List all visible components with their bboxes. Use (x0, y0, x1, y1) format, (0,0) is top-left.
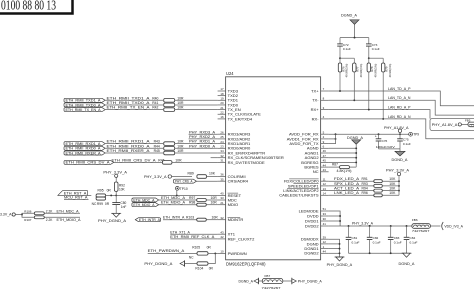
svg-text:ETH_RMII_TXD0_A: ETH_RMII_TXD0_A (66, 103, 102, 107)
svg-text:25: 25 (220, 135, 224, 139)
wire ETH_RMII_TX_EN_A (105, 105, 163, 110)
svg-text:ETH_MDC_A: ETH_MDC_A (133, 198, 155, 202)
svg-text:C81: C81 (352, 236, 358, 240)
svg-text:21: 21 (220, 106, 224, 110)
wire cap ground rail (C81-C84) (349, 252, 407, 254)
svg-text:R44: R44 (154, 144, 160, 148)
wire ETH_INTR_A (163, 216, 197, 220)
net flag ETH_RMII_RXD0_A (64, 146, 105, 150)
resistor R46 10R (162, 159, 182, 165)
resistor R79 49.9R(1%) (369, 58, 392, 119)
svg-text:ETH_RMII_TX_EN_A: ETH_RMII_TX_EN_A (107, 105, 150, 110)
svg-text:0R: 0R (105, 202, 110, 206)
wire R105 to U24 PWRDWN (208, 252, 218, 254)
pin 25 RXD2/ADR2 (U24 left) (218, 135, 251, 141)
resistor R45 10R (154, 149, 184, 155)
svg-text:ETH_RMII_TX_EN_A: ETH_RMII_TX_EN_A (66, 108, 102, 112)
svg-text:10K: 10K (119, 188, 126, 192)
svg-text:16: 16 (220, 115, 224, 119)
net flag ETH_MDIO_A (132, 203, 159, 207)
power port 3.3V_A (0, 213, 15, 217)
svg-text:R104: R104 (195, 267, 203, 271)
pin 3 RX+ (U24 right) (311, 106, 329, 112)
svg-text:LNK_LED_A: LNK_LED_A (334, 191, 360, 195)
svg-text:+: + (375, 135, 377, 139)
svg-text:19: 19 (220, 97, 224, 101)
svg-text:LAN_TD_A_N: LAN_TD_A_N (388, 96, 411, 100)
svg-text:35: 35 (220, 177, 224, 181)
node C72/R76/R77 (339, 57, 341, 59)
wire LAN_RD_A_N (329, 115, 474, 139)
wire R104 to PWRDWN node (208, 253, 215, 263)
svg-text:ETH_RMII_RXD1_A: ETH_RMII_RXD1_A (66, 142, 102, 146)
wire FDX_LED_A (329, 177, 374, 181)
svg-text:45: 45 (323, 159, 327, 163)
svg-text:10K: 10K (389, 191, 396, 195)
pin 44 DGND2 (U24 right) (304, 250, 328, 256)
svg-text:49.9R(1%): 49.9R(1%) (388, 64, 392, 78)
wire FB6 to VDD_IV3_A (430, 225, 440, 227)
svg-text:ETH_MDIO_A: ETH_MDIO_A (133, 203, 155, 207)
svg-text:10R: 10R (177, 140, 184, 144)
svg-text:RX_DV/TESTMODE: RX_DV/TESTMODE (228, 160, 265, 165)
svg-text:NC: NC (189, 255, 194, 259)
svg-text:31: 31 (220, 159, 224, 163)
capacitor C73 0.1uF (366, 38, 380, 59)
power port PHY_A1.8V_A (FB5) (432, 123, 462, 127)
svg-text:FB6: FB6 (412, 218, 418, 222)
wire R103 to U24 (206, 219, 217, 221)
capacitor C81 0.1uF (346, 226, 360, 253)
wire PHY_RXD2_A (189, 134, 218, 139)
power port PHY_3.3V_A (R92) (103, 171, 127, 178)
wire LED pullup vertical (398, 176, 400, 196)
svg-text:MDINTR: MDINTR (228, 217, 244, 222)
svg-text:0.1uF: 0.1uF (352, 241, 360, 245)
pin 30 DVDD1 (U24 right) (305, 217, 329, 223)
wire ACT_LED_A (329, 187, 374, 191)
svg-text:ETH_INTR_A: ETH_INTR_A (139, 218, 161, 222)
pin 26 RXD3/ADR3 (U24 left) (218, 130, 251, 136)
svg-text:0.1uF: 0.1uF (403, 142, 411, 146)
wire R91 to pullup rail (382, 180, 400, 182)
resistor R99 0R (NC) (92, 195, 110, 206)
resistor R43 10R (154, 140, 184, 146)
svg-text:FB7: FB7 (265, 274, 271, 278)
svg-text:CABLEDET/LINKSTS: CABLEDET/LINKSTS (279, 193, 319, 198)
pin 12 SPEEDLED/OP1 (U24 right) (288, 182, 329, 188)
svg-text:33: 33 (323, 212, 327, 216)
svg-text:ETH_RMII_REF_CLK_A: ETH_RMII_REF_CLK_A (170, 235, 214, 239)
svg-text:ETH_RMII_RXD0_A: ETH_RMII_RXD0_A (66, 147, 102, 151)
svg-text:R45: R45 (154, 149, 160, 153)
svg-text:43: 43 (323, 168, 327, 172)
resistor R93 10K (374, 182, 396, 188)
pin 42 REF_CLK/XT2 (U24 left) (218, 235, 256, 241)
svg-text:33: 33 (220, 196, 224, 200)
svg-text:LAN_RD_A_P: LAN_RD_A_P (388, 106, 411, 110)
svg-text:49.9R(1%): 49.9R(1%) (345, 64, 349, 78)
svg-text:R106: R106 (24, 209, 32, 213)
svg-text:51: 51 (323, 207, 327, 211)
svg-text:20: 20 (220, 101, 224, 105)
ground PHY_DGND_A (R104) (144, 260, 184, 267)
wire AGND vertical (329, 144, 358, 167)
wire ETH_RMII_TXD0_A (105, 100, 163, 105)
ferrite bead FB6 (412, 218, 431, 233)
ground PHY_DGND_A (C80) (98, 213, 127, 223)
svg-text:0.1uF: 0.1uF (343, 47, 351, 51)
svg-text:R98: R98 (189, 201, 195, 205)
svg-text:REF_CLK/XT2: REF_CLK/XT2 (228, 236, 256, 241)
power port PHY_A1.8V_A (rail) (384, 126, 409, 134)
wire R93 to pullup rail (382, 185, 400, 187)
svg-text:10: 10 (220, 250, 224, 254)
svg-text:ETH_RMII_TXD1_A: ETH_RMII_TXD1_A (66, 99, 102, 103)
svg-text:12: 12 (323, 182, 327, 186)
svg-text:PHY_DGND_A: PHY_DGND_A (298, 280, 323, 284)
svg-text:44: 44 (323, 163, 327, 167)
svg-text:34: 34 (220, 149, 224, 153)
node RX+/R78 (368, 109, 370, 111)
svg-text:ETH_MDIO_A: ETH_MDIO_A (161, 201, 185, 205)
svg-text:42: 42 (220, 235, 224, 239)
svg-text:0R: 0R (207, 246, 212, 250)
svg-text:C76: C76 (382, 139, 388, 143)
wire LAN_TD_A_P (329, 87, 474, 106)
svg-text:MCU_RST_A: MCU_RST_A (64, 196, 88, 200)
test point TP10 (175, 186, 187, 195)
svg-text:0.1uF: 0.1uF (394, 241, 402, 245)
wire PHY_A1.8V_A rail (329, 133, 409, 135)
pin 16 TX_ER/TXD4 (U24 left) (218, 115, 253, 121)
svg-text:C83: C83 (394, 236, 400, 240)
ground DGND_A (AGND) (347, 136, 364, 144)
svg-text:18: 18 (220, 92, 224, 96)
svg-text:R87: R87 (332, 162, 338, 166)
pin 8 TX- (U24 right) (312, 97, 329, 103)
wire ETH_XT1_A (170, 230, 217, 234)
svg-text:17: 17 (220, 87, 224, 91)
wire R96 to pullup rail (382, 194, 399, 196)
net flag PHY_CRS_A (174, 179, 197, 183)
pin 35 CRS/ADR4 (U24 left) (218, 177, 249, 183)
wire SPX_LED_A (329, 182, 374, 186)
wire ETH_MDC_A (159, 196, 197, 200)
ground DGND_A (C81-C84) (399, 253, 416, 266)
pin 45 BGRESG (U24 right) (301, 159, 328, 165)
svg-text:49.9R(1%): 49.9R(1%) (373, 64, 377, 78)
wire R44 to U24 (175, 143, 218, 148)
svg-text:1nF: 1nF (121, 205, 127, 209)
label MCU_RST_A (64, 196, 89, 200)
svg-text:ETH_RMII_RXER_A: ETH_RMII_RXER_A (66, 151, 102, 155)
node RX-/R79 (382, 118, 384, 120)
resistor R42 10R (152, 106, 184, 112)
svg-text:10R: 10R (211, 201, 218, 205)
svg-text:10R: 10R (211, 196, 218, 200)
wire PHY_CRS_A to U24 (197, 180, 218, 182)
ferrite bead FB7 (262, 274, 283, 290)
wire ETH_PWRDWN_A (148, 249, 197, 253)
ground DGND_A (top) (341, 14, 359, 25)
svg-text:DGND_A: DGND_A (347, 136, 364, 140)
wire R42 to U24 (175, 109, 218, 111)
net flag ETH_RST_A (58, 191, 88, 196)
pin 41 DVDD2 (U24 right) (305, 222, 329, 228)
svg-text:2.2K: 2.2K (46, 209, 53, 213)
svg-text:R97: R97 (189, 196, 195, 200)
svg-text:0.1uF: 0.1uF (373, 241, 381, 245)
wire LEDMODE/DVDD to rail (329, 211, 341, 226)
svg-text:PHY_3.3V_A: PHY_3.3V_A (144, 175, 167, 179)
wire ETH_RMII_TXD1_A (105, 95, 163, 100)
wire ETH_RMII_RXD0_A (105, 143, 163, 148)
svg-text:4.8K(1%): 4.8K(1%) (337, 169, 352, 173)
pin 11 FDX/COLLED/OP0 (U24 right) (284, 177, 329, 183)
svg-text:PHY_3.3V_A: PHY_3.3V_A (103, 171, 127, 175)
resistor R107 2.2K (ETH_MDIO_A pullup) (24, 216, 81, 222)
svg-text:ETH_INTR_A: ETH_INTR_A (163, 216, 185, 220)
resistor R89 10K (188, 171, 216, 178)
title block fragment (MAC address box) (0, 0, 73, 14)
pin 32 MDINTR (U24 left) (218, 216, 244, 222)
wire R40 to U24 (175, 99, 218, 101)
capacitor C84 0.1uF (404, 226, 418, 253)
svg-text:R89: R89 (188, 171, 194, 175)
pin 13 LINK/ACTLED/OP2 (U24 right) (283, 187, 328, 193)
svg-text:PHY_A1.8V_A: PHY_A1.8V_A (432, 123, 458, 127)
svg-text:39: 39 (323, 235, 327, 239)
wire PHY_RXD3_A (189, 129, 218, 134)
ferrite bead FB5 (465, 119, 474, 127)
resistor R40 10R (152, 96, 184, 102)
wire DGND_A to cap rail (340, 24, 369, 38)
svg-text:74276267: 74276267 (412, 229, 430, 233)
capacitor C75 0.1uF (397, 134, 411, 149)
svg-text:74276267: 74276267 (262, 286, 281, 290)
power port PHY_3.3V_A (LED) (386, 169, 410, 176)
wire R46 to U24 (172, 161, 218, 163)
pin 21 TX_EN (U24 left) (218, 106, 241, 112)
resistor R87 4.8K(1%) (332, 162, 352, 172)
wire R89 to U24 COL/RMII (207, 176, 218, 178)
svg-text:12: 12 (323, 240, 327, 244)
svg-text:C82: C82 (373, 236, 379, 240)
test point TP9 (409, 132, 420, 136)
pin 40 RESET (U24 left) (218, 192, 242, 198)
svg-text:DGND2: DGND2 (304, 251, 319, 256)
svg-text:U24: U24 (226, 71, 234, 76)
node TX-/R77 (353, 99, 355, 101)
svg-text:PHY_RXD0_A: PHY_RXD0_A (189, 143, 215, 148)
svg-text:41: 41 (323, 222, 327, 226)
pin 9 AVDD_FOR_TX (U24 right) (289, 140, 328, 146)
wire R94 to pullup rail (382, 190, 400, 192)
wire R41 to U24 (175, 104, 218, 106)
pin 32 RX_CLK/SCRAMEN/10BTSER (U24 left) (218, 154, 284, 160)
svg-text:RX-: RX- (312, 116, 320, 121)
wire ETH_RMII_CRS_DV_A (112, 158, 165, 163)
pin 46 AGND1 (U24 right) (305, 149, 329, 155)
svg-text:TP10: TP10 (180, 187, 188, 191)
svg-text:PHY_DGND_A: PHY_DGND_A (98, 219, 127, 223)
svg-text:ETH_MDC_A: ETH_MDC_A (57, 209, 80, 213)
resistor R76 49.9R(1%) (338, 58, 348, 91)
svg-text:R42: R42 (152, 106, 158, 110)
svg-text:R91: R91 (362, 177, 368, 181)
svg-text:0.1uF: 0.1uF (410, 241, 418, 245)
pin 7 TX+ (U24 right) (311, 87, 329, 93)
pin 34 RX_ER/RXD4/RPTR (U24 left) (218, 149, 266, 155)
wire AVDD_FOR_TX to rail (329, 134, 336, 143)
wire ETH_RMII_REF_CLK_A (170, 235, 217, 239)
resistor R78 49.9R(1%) (367, 58, 377, 109)
svg-text:24: 24 (220, 140, 224, 144)
svg-text:3.3V_A: 3.3V_A (0, 213, 12, 217)
svg-text:PHY_DGND_A: PHY_DGND_A (327, 263, 353, 267)
wire PHY_3.3V_A rail (340, 221, 412, 227)
sheet connector box (FB5 group) (430, 119, 474, 131)
svg-text:47: 47 (323, 154, 327, 158)
resistor R98 10R (197, 201, 218, 207)
net flag ETH_RMII_CRS_DV_A (64, 160, 114, 164)
svg-text:40: 40 (220, 192, 224, 196)
svg-text:46: 46 (323, 149, 327, 153)
pin 2 AVDD1_FOR_RX (U24 right) (287, 135, 329, 141)
svg-text:10R: 10R (177, 144, 184, 148)
svg-text:26: 26 (220, 130, 224, 134)
svg-text:36: 36 (220, 173, 224, 177)
svg-text:DVDD2: DVDD2 (305, 223, 319, 228)
resistor R95 0R (96, 189, 111, 197)
pin 19 TXD1 (U24 left) (218, 97, 239, 103)
resistor R96 10K (374, 191, 396, 197)
pin 47 AGND2 (U24 right) (305, 154, 329, 160)
resistor R41 10R (152, 101, 184, 107)
wire PHY_3.3V_A to R89 (172, 176, 193, 178)
capacitor C76 100uF/10V (375, 134, 396, 149)
svg-text:TX+: TX+ (311, 88, 319, 93)
wire FB7 to PHY_DGND_A (283, 280, 292, 282)
svg-text:10K: 10K (209, 171, 216, 175)
capacitor C72 0.1uF (337, 38, 351, 59)
pin 21 MDIO (U24 left) (218, 201, 239, 207)
svg-text:ETH_PWRDWN_A: ETH_PWRDWN_A (148, 249, 185, 253)
wire ETH_RST_A to R95 (87, 194, 91, 196)
svg-text:C84: C84 (410, 236, 416, 240)
pin 20 TXD0 (U24 left) (218, 101, 239, 107)
wire LAN_RD_A_P (329, 106, 430, 119)
IC U24 DM9162EP(LQFP48) body (226, 77, 321, 260)
wire R43 to U24 (175, 139, 218, 144)
node TX+/R76 (339, 90, 341, 92)
wire AVDD1_FOR_RX to rail (329, 138, 337, 140)
pin 33 MDC (U24 left) (218, 196, 237, 202)
svg-text:DGND_A: DGND_A (341, 14, 357, 18)
svg-text:DGND_A: DGND_A (239, 280, 254, 284)
svg-text:CRS/ADR4: CRS/ADR4 (228, 179, 249, 184)
ground DGND_A (FB7 left) (239, 278, 259, 285)
ground DGND_A (caps) (392, 151, 409, 162)
pin 23 RXD0/ADR0 (U24 left) (218, 145, 251, 151)
node C73/R78/R79 (368, 57, 370, 59)
svg-text:10R: 10R (212, 216, 219, 220)
svg-text:32: 32 (220, 154, 224, 158)
svg-text:30: 30 (323, 217, 327, 221)
svg-text:0.1uF: 0.1uF (372, 47, 380, 51)
svg-text:11: 11 (323, 177, 326, 181)
power port PHY_3.3V_A (R89 pullup) (144, 175, 172, 179)
pin 43 NC (U24 right) (313, 168, 329, 174)
resistor R44 10R (154, 144, 184, 150)
svg-text:R107: R107 (24, 218, 32, 222)
svg-text:0R: 0R (209, 267, 214, 271)
svg-text:0R: 0R (107, 189, 112, 193)
wire ground to R104 (185, 263, 198, 265)
svg-text:ETH_MDIO_A: ETH_MDIO_A (57, 218, 82, 222)
svg-text:PHY_3.3V_A: PHY_3.3V_A (352, 221, 374, 225)
svg-text:PHY_3.3V_A: PHY_3.3V_A (386, 169, 410, 173)
svg-text:NC: NC (313, 169, 319, 174)
svg-text:FDX_LED_A: FDX_LED_A (334, 177, 360, 181)
svg-text:44: 44 (323, 250, 327, 254)
svg-text:MDIO: MDIO (228, 202, 239, 207)
svg-text:RX+: RX+ (311, 107, 320, 112)
pin 12 DGND (U24 right) (307, 240, 329, 246)
svg-text:13: 13 (323, 187, 327, 191)
pin 18 TXD2 (U24 left) (218, 92, 239, 98)
pin 31 RX_DV/TESTMODE (U24 left) (218, 159, 265, 165)
svg-text:PWRDWN: PWRDWN (228, 251, 247, 256)
svg-text:R103: R103 (186, 216, 194, 220)
svg-text:2.2K: 2.2K (46, 218, 53, 222)
svg-text:10R: 10R (177, 96, 184, 100)
svg-text:R43: R43 (154, 140, 160, 144)
svg-text:R95: R95 (98, 189, 104, 193)
svg-text:DGND_A: DGND_A (392, 158, 409, 162)
wire LAN_TD_A_N (329, 96, 474, 115)
svg-text:ETH_RMII_RXER_A: ETH_RMII_RXER_A (107, 148, 150, 153)
pin 6 AGND (U24 right) (307, 145, 329, 151)
svg-text:R105: R105 (192, 246, 200, 250)
svg-text:ETH_RMII_CRS_DV_A: ETH_RMII_CRS_DV_A (66, 161, 111, 165)
svg-text:22: 22 (220, 110, 224, 114)
svg-text:ETH_XT1_A: ETH_XT1_A (170, 230, 190, 234)
net flag ETH_RMII_TXD0_A (64, 103, 105, 107)
ground PHY_DGND_A (FB7 right) (292, 278, 323, 285)
svg-text:SPX_LED_A: SPX_LED_A (334, 182, 360, 186)
svg-text:R99: R99 (97, 202, 103, 206)
svg-text:0100 88 80 13: 0100 88 80 13 (1, 0, 56, 12)
wire cap ground rail (379, 149, 401, 151)
wire DSMODX/DGND to ground (329, 239, 341, 257)
svg-text:32: 32 (220, 216, 224, 220)
net flag ETH_RMII_RXD1_A (64, 142, 105, 146)
capacitor C80 1nF (112, 195, 126, 213)
pin 1 DGND1 (U24 right) (304, 245, 328, 251)
svg-text:R93: R93 (362, 182, 368, 186)
svg-text:C75: C75 (403, 137, 409, 141)
svg-text:10R: 10R (177, 149, 184, 153)
svg-text:DM9162EP(LQFP48): DM9162EP(LQFP48) (226, 262, 266, 267)
resistor R77 49.9R(1%) (340, 58, 363, 100)
svg-text:LAN_TD_A_P: LAN_TD_A_P (388, 87, 411, 91)
svg-text:TX_ER/TXD4: TX_ER/TXD4 (228, 116, 253, 121)
svg-text:23: 23 (220, 145, 224, 149)
pin 24 RXD1/ADR1 (U24 left) (218, 140, 251, 146)
pin 51 LEDMODE (U24 right) (299, 207, 329, 213)
